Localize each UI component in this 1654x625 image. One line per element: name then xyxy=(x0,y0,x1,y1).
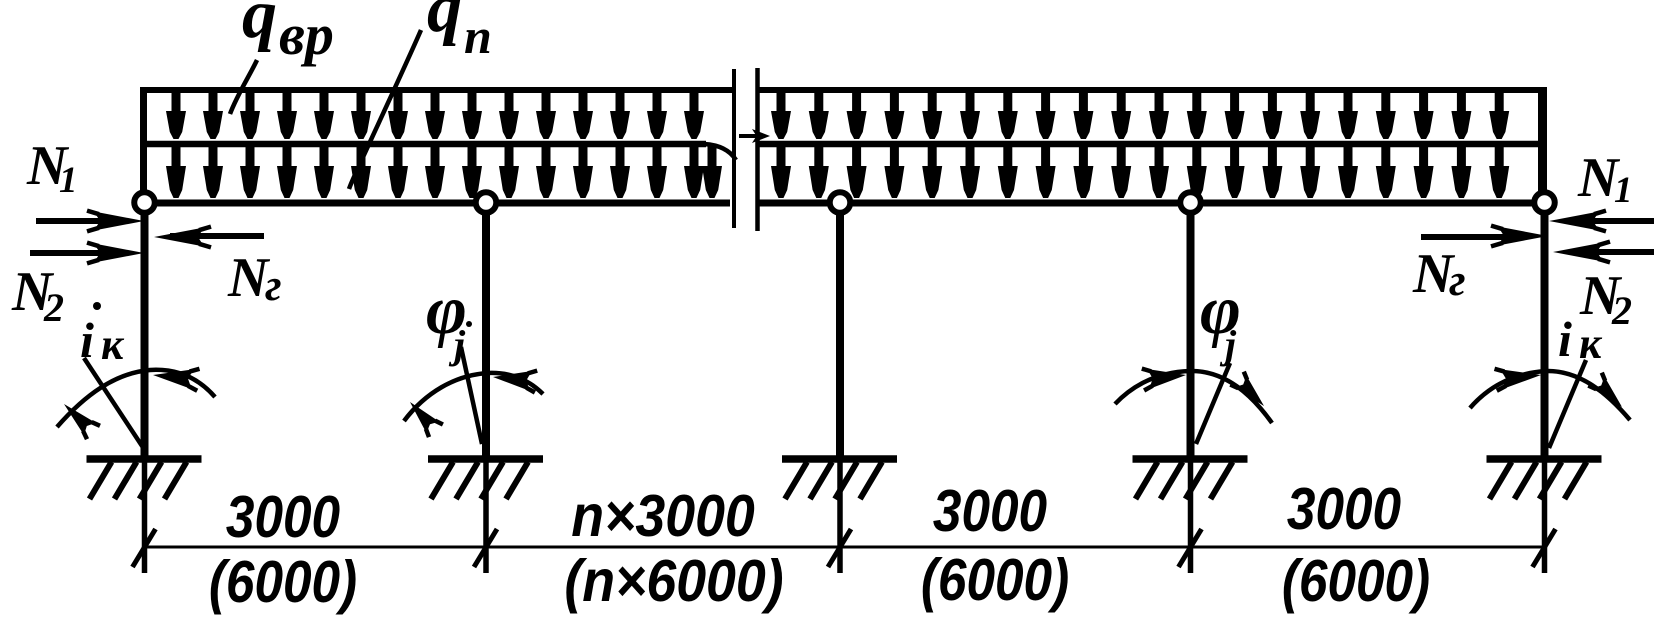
ground (foundation hatch) at column 1 xyxy=(87,459,202,499)
label N1 (left) xyxy=(26,135,78,201)
svg-text:2: 2 xyxy=(1611,288,1632,333)
main beam (girder) line xyxy=(143,200,1546,207)
scan speckle dot near N2 label xyxy=(93,302,101,310)
ground (foundation hatch) at column 4 xyxy=(1133,459,1248,499)
leader line phi_j to column 2 base xyxy=(461,347,482,444)
force N1 arrow (left) xyxy=(36,211,144,232)
label phi_j at column 4 xyxy=(1200,272,1241,367)
svg-text:вр: вр xyxy=(279,2,334,67)
label q_p (permanent load) xyxy=(427,0,492,64)
force Ng reaction arrow (left, pointing left) xyxy=(154,227,264,248)
svg-text:(n×6000): (n×6000) xyxy=(564,548,783,614)
label i_k (right) xyxy=(1558,311,1603,368)
ground (foundation hatch) at column 2 xyxy=(428,459,543,499)
svg-text:3000: 3000 xyxy=(226,484,340,550)
leader line i_k to column 1 base xyxy=(84,358,146,452)
rotation arc phi_j at column 4 xyxy=(1115,369,1272,423)
hinge circle at column 2 xyxy=(476,192,497,213)
scan speckle dot near phi_j column 2 xyxy=(466,321,472,327)
svg-text:(6000): (6000) xyxy=(921,547,1069,613)
dimension tick at column 3 xyxy=(828,529,851,567)
distributed load q_vr arrows (top row) xyxy=(166,90,1509,139)
beam break mark line 1 xyxy=(732,69,736,228)
hinge circle at column 4 xyxy=(1180,192,1201,213)
distributed load q_p arrows (bottom row) xyxy=(166,146,1509,198)
label phi_j at column 2 xyxy=(426,272,467,367)
label N1 (right) xyxy=(1577,147,1633,211)
force N1 arrow (right) xyxy=(1549,211,1654,232)
label Ng (right) xyxy=(1412,243,1466,305)
ground (foundation hatch) at column 5 xyxy=(1487,459,1602,499)
load band middle line xyxy=(143,144,1546,160)
beam / load band top chord line xyxy=(143,87,1546,93)
leader line from q_p through band xyxy=(349,30,421,189)
hinge circle at column 1 xyxy=(134,192,155,213)
svg-text:i: i xyxy=(80,312,94,368)
svg-text:q: q xyxy=(242,0,277,53)
rotation arc i_k at column 1 xyxy=(57,369,215,439)
svg-text:3000: 3000 xyxy=(1287,476,1401,542)
column 2 xyxy=(482,213,490,573)
beam break mark line 2 xyxy=(755,68,760,231)
label Ng (left) xyxy=(227,247,282,310)
rotation arc phi_j at column 2 xyxy=(404,371,543,438)
load band right edge xyxy=(1538,87,1547,195)
label q_vr (temporary load) xyxy=(242,0,334,67)
force Ng reaction arrow (right, pointing right) xyxy=(1421,226,1548,247)
svg-text:г: г xyxy=(265,260,282,310)
svg-text:1: 1 xyxy=(59,160,78,201)
label N2 (right) xyxy=(1579,265,1632,333)
ground (foundation hatch) at column 3 xyxy=(782,459,897,499)
svg-text:n×3000: n×3000 xyxy=(571,483,755,549)
hinge circle at column 3 xyxy=(830,192,851,213)
rotation arc i_k at column 5 xyxy=(1470,369,1630,420)
svg-text:3000: 3000 xyxy=(933,478,1047,544)
svg-text:(6000): (6000) xyxy=(209,549,357,615)
svg-text:к: к xyxy=(101,320,125,369)
column 4 xyxy=(1187,213,1195,573)
svg-text:к: к xyxy=(1579,319,1603,368)
break mark small arrow xyxy=(739,129,770,143)
svg-text:q: q xyxy=(427,0,462,47)
leader line i_k to column 5 base xyxy=(1549,360,1586,448)
dimension tick at column 1 xyxy=(133,529,156,567)
svg-text:1: 1 xyxy=(1614,170,1633,211)
svg-text:п: п xyxy=(464,8,492,64)
label i_k (left) xyxy=(80,312,125,369)
force N2 arrow (left) xyxy=(30,243,144,264)
svg-text:2: 2 xyxy=(43,285,64,330)
hinge circle at column 5 xyxy=(1534,192,1555,213)
load band left edge xyxy=(140,87,147,195)
column 5 (right outer) xyxy=(1541,213,1549,573)
leader line phi_j to column 4 base xyxy=(1196,363,1230,444)
dimension tick at column 5 xyxy=(1533,529,1556,567)
svg-text:г: г xyxy=(1449,255,1466,305)
svg-text:i: i xyxy=(1558,311,1572,367)
column 3 (middle) xyxy=(836,213,844,573)
dimension line xyxy=(144,546,1546,549)
leader line from q_vr to band xyxy=(230,60,257,114)
column 1 (left outer) xyxy=(141,213,149,573)
dimension tick at column 2 xyxy=(474,529,497,567)
dimension tick at column 4 xyxy=(1179,529,1202,567)
label N2 (left) xyxy=(11,261,64,330)
svg-text:(6000): (6000) xyxy=(1282,548,1430,614)
force N2 arrow (right) xyxy=(1553,242,1654,263)
